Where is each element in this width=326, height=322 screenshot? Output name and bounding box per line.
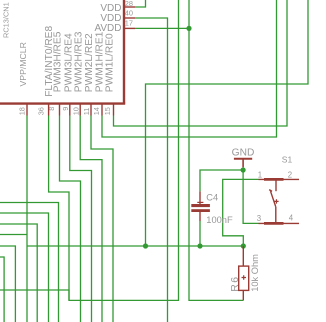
svg-text:PWM2H/RE3: PWM2H/RE3 <box>74 31 85 92</box>
svg-text:R6: R6 <box>229 275 241 291</box>
S1 top contact bar <box>264 178 284 181</box>
pin stub 9 <box>69 104 71 116</box>
wire net x189 (MCLR pullup) <box>189 0 243 300</box>
svg-text:C4: C4 <box>206 192 218 202</box>
S1 actuator top <box>275 181 277 192</box>
svg-text:10k Ohm: 10k Ohm <box>250 254 260 292</box>
pin stub 40 <box>125 17 135 19</box>
S1 pin3-4 line <box>259 222 300 224</box>
wire pin8 net <box>60 116 81 322</box>
wire left edge h4 <box>0 234 27 236</box>
svg-text:VPP/MCLR: VPP/MCLR <box>18 42 28 86</box>
pin stub 10 <box>79 104 81 116</box>
wire net x178.5 top to bottom-left <box>0 0 179 300</box>
junction dot GND <box>241 167 246 172</box>
capacitor C4 <box>191 191 210 221</box>
pin stub 18 <box>26 104 28 116</box>
R6 top lead <box>242 246 244 266</box>
pin stub 14 <box>101 104 103 116</box>
IC U1 right edge <box>123 0 125 104</box>
wire MCLR crossover y84 <box>146 0 309 246</box>
pin stub 11 <box>90 104 92 116</box>
R6 body <box>239 266 249 290</box>
switch S1 <box>259 179 300 223</box>
R6 bottom lead <box>242 290 244 300</box>
svg-text:2: 2 <box>288 170 292 179</box>
svg-text:40: 40 <box>125 8 133 17</box>
C4 bottom lead <box>199 212 201 221</box>
svg-text:1: 1 <box>258 170 262 179</box>
svg-text:4: 4 <box>289 213 294 222</box>
wire pin28 net <box>135 0 146 7</box>
pin stubs of IC (dark red) <box>27 7 135 116</box>
wire GND net: dot to cap top <box>242 167 244 170</box>
pin stub 15 <box>113 104 115 116</box>
S1 lever tick <box>269 190 272 192</box>
wire pin15 net <box>114 0 288 126</box>
pin stub 8 <box>59 104 61 116</box>
svg-text:14: 14 <box>92 107 101 115</box>
ground <box>234 159 252 168</box>
svg-text:PWM3H/RE5: PWM3H/RE5 <box>53 31 64 92</box>
wire GND down to switch pin3 <box>243 170 258 223</box>
wire GND to cap <box>200 170 243 191</box>
junction dot cap bottom <box>197 243 202 248</box>
wire pin18 net <box>26 116 28 322</box>
wire pin11 net <box>91 116 113 322</box>
svg-text:17: 17 <box>125 19 133 28</box>
R6 origin cross <box>242 275 247 280</box>
wire left edge h3 <box>0 224 37 322</box>
pin stub 28 <box>125 6 135 8</box>
svg-text:3: 3 <box>257 214 261 223</box>
wire MCLR row <box>27 245 243 247</box>
C4 top lead <box>199 191 201 204</box>
C4 top plate <box>191 204 210 207</box>
junction dot R6 top <box>241 243 246 248</box>
wire left edge h5 MCLR line <box>0 246 15 322</box>
wire left edge h2 <box>0 213 49 322</box>
wire pin9 net <box>70 116 92 322</box>
S1 bottom contact bar <box>264 222 284 225</box>
wire cap bottom to MCLR line <box>199 221 201 246</box>
C4 origin cross <box>197 201 203 203</box>
svg-text:GND: GND <box>232 148 255 159</box>
wire pin40 net <box>135 18 168 322</box>
svg-text:9: 9 <box>61 107 70 111</box>
S1 origin cross <box>274 199 278 203</box>
S1 actuator bottom <box>275 207 277 223</box>
svg-text:RC13/CN1: RC13/CN1 <box>2 2 11 38</box>
IC U1 (microcontroller, cropped at top-left) <box>0 0 125 104</box>
svg-text:11: 11 <box>82 108 91 116</box>
S1 lever <box>271 191 276 207</box>
ground bar <box>234 158 252 160</box>
svg-text:PWM2L/RE2: PWM2L/RE2 <box>84 33 95 92</box>
wire pin36 net <box>49 116 69 301</box>
wire left edge h1 <box>0 203 59 322</box>
svg-text:10: 10 <box>71 107 80 115</box>
svg-text:100nF: 100nF <box>206 215 233 225</box>
S1 pin1-2 line <box>259 178 300 180</box>
wire pin14 net <box>102 0 277 137</box>
ground stub <box>242 159 244 168</box>
svg-text:PWM1L/RE0: PWM1L/RE0 <box>105 33 116 92</box>
junction dot x145.5 <box>143 243 148 248</box>
svg-text:AVDD: AVDD <box>94 23 121 34</box>
C4 bottom plate <box>191 209 210 212</box>
svg-text:S1: S1 <box>282 155 293 165</box>
svg-text:18: 18 <box>18 107 27 115</box>
wire switch pin1 to MCLR net <box>223 179 259 246</box>
pin stub 17 <box>125 27 135 29</box>
svg-text:15: 15 <box>103 107 112 115</box>
resistor R6 <box>239 246 249 300</box>
svg-text:36: 36 <box>37 107 46 115</box>
wire left edge h6 <box>0 257 4 322</box>
wire pin10 net <box>80 116 102 322</box>
pin stub 36 <box>48 104 50 116</box>
IC U1 bottom edge <box>0 102 125 104</box>
junction dot pin17 <box>186 26 191 31</box>
wire pin17 net <box>135 27 189 29</box>
